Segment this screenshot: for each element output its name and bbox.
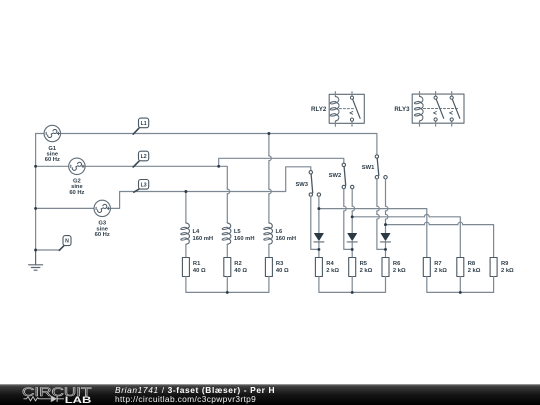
svg-text:L3: L3 [141,182,147,188]
svg-text:L4: L4 [193,229,201,235]
svg-text:R5: R5 [360,261,368,267]
wire SW3 left bypass [311,196,319,249]
svg-text:60 Hz: 60 Hz [69,190,84,196]
inductor L5 [222,223,231,244]
inductor L6 [264,223,273,244]
svg-text:RLY2: RLY2 [311,106,327,113]
node label L1 [133,118,149,134]
svg-text:RLY3: RLY3 [394,106,410,113]
hop SW2-left over bus1 [344,206,346,211]
hops bus3 [424,222,462,224]
resistor R2 [224,258,231,277]
wire SW2 left bypass [344,189,352,250]
svg-text:2 kΩ: 2 kΩ [434,268,447,274]
hop L2-vertical over L3 wire [227,189,229,194]
wire L5 to R2 [226,244,228,257]
diode D3 [381,233,391,242]
hop bus2 over R7 feed [424,214,429,216]
svg-text:60 Hz: 60 Hz [45,157,60,163]
svg-text:LAB: LAB [65,395,92,405]
switch SW2 [342,163,354,189]
svg-text:2 kΩ: 2 kΩ [360,268,373,274]
resistor R3 [265,258,272,277]
node label L2 [133,151,149,167]
svg-text:160 mH: 160 mH [276,236,297,242]
relay RLY3 [412,92,464,127]
svg-text:R1: R1 [193,261,201,267]
hop SW2-right over bus1 [352,206,354,211]
wire bus2 to R8 [352,217,460,258]
wire bus1 to R7 [319,209,427,258]
wire SW1 left bypass [377,179,386,250]
voltage source G3 [94,200,110,216]
wire left rail [35,134,37,251]
svg-text:SW2: SW2 [329,173,342,179]
svg-text:R6: R6 [393,261,401,267]
svg-text:L1: L1 [141,121,147,127]
wire bottom bus group3 [427,277,494,293]
svg-text:60 Hz: 60 Hz [95,232,110,238]
wire L3 junction down to L4 [185,192,187,223]
switch SW1 [375,155,387,179]
voltage source G2 [69,158,85,174]
diode D2 [347,233,357,242]
resistor R5 [349,258,356,277]
svg-text:2 kΩ: 2 kΩ [468,268,481,274]
svg-text:2 kΩ: 2 kΩ [393,268,406,274]
voltage source G1 [44,125,60,141]
switch SW3 [309,171,321,197]
diode D1 [314,233,324,242]
relay RLY2 [329,92,364,127]
resistor R6 [382,258,389,277]
svg-text:R4: R4 [326,261,334,267]
ground [29,250,43,270]
wire L1 line [36,134,377,155]
svg-text:40 Ω: 40 Ω [276,268,289,274]
wire L6 to R3 [268,244,270,257]
wire bottom bus group1 [186,277,269,293]
svg-text:R3: R3 [276,261,284,267]
inductor L4 [181,223,190,244]
wire SW2 right to D2 [351,189,353,258]
svg-text:SW3: SW3 [295,182,308,188]
resistor R1 [182,258,189,277]
svg-text:R9: R9 [501,261,509,267]
node label L3 [134,180,149,193]
svg-text:SW1: SW1 [362,165,375,171]
svg-text:R2: R2 [234,261,241,267]
resistor R9 [490,258,497,277]
wire SW3 right to D1 [318,196,320,257]
svg-text:N: N [65,239,69,245]
svg-text:40 Ω: 40 Ω [193,268,206,274]
wire L3 line [36,167,311,209]
svg-text:40 Ω: 40 Ω [234,268,247,274]
wire L2 to SW2 [219,158,344,166]
svg-text:L2: L2 [141,154,147,160]
wire bus3 to R9 [386,225,494,258]
hops SW1-left [377,206,379,219]
logo waveform [24,396,65,402]
hops SW1-right [386,206,388,219]
node label N [36,236,71,251]
resistor R4 [315,258,322,277]
svg-text:160 mH: 160 mH [193,236,214,242]
svg-text:http://circuitlab.com/c3cpwpvr: http://circuitlab.com/c3cpwpvr3rtp9 [115,394,256,404]
resistor R7 [423,258,430,277]
hop L6-vertical over SW2 feed wire [269,156,271,161]
wire SW1 right to D3 [385,179,387,258]
svg-text:R8: R8 [468,261,476,267]
svg-text:160 mH: 160 mH [234,236,255,242]
wire L2 line [36,166,228,223]
wire bottom bus group2 [319,277,386,293]
resistor R8 [457,258,464,277]
svg-text:R7: R7 [434,261,441,267]
svg-text:2 kΩ: 2 kΩ [326,268,339,274]
wire L4 to R1 [185,244,187,257]
hop L6-vertical over L3 wire [269,189,271,194]
logo diode arrow [52,396,57,402]
svg-text:2 kΩ: 2 kΩ [501,268,514,274]
footer bar [0,384,540,405]
wire L1 junction down to L6 [268,134,270,223]
svg-text:L6: L6 [276,229,284,235]
svg-text:L5: L5 [234,229,242,235]
